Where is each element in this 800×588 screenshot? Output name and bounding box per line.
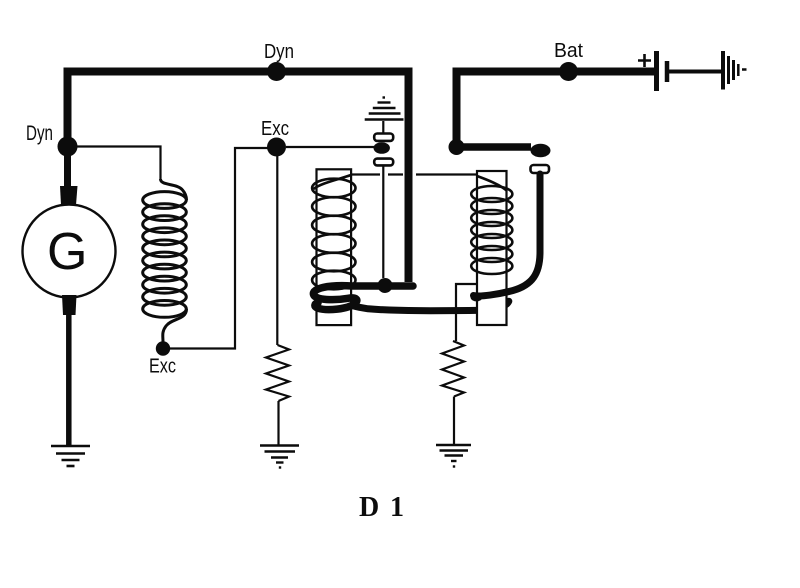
dashed link line between relay tops bbox=[351, 173, 477, 175]
svg-text:Bat: Bat bbox=[554, 40, 583, 62]
wire generator bottom lead bbox=[66, 313, 72, 445]
junction Dyn top bbox=[267, 62, 286, 81]
left relay thick wrap bbox=[313, 286, 413, 310]
wire right resistor to ground bbox=[453, 397, 455, 445]
right relay core bbox=[477, 171, 507, 325]
resistor left bbox=[266, 345, 289, 401]
wire generator top lead bbox=[64, 150, 71, 187]
junction Exc at field coil bbox=[156, 341, 170, 355]
junction Dyn left bbox=[58, 137, 78, 157]
contact upper bbox=[374, 134, 393, 141]
svg-text:Dyn: Dyn bbox=[26, 122, 53, 145]
generator top terminal block bbox=[60, 186, 78, 205]
contact right bbox=[531, 165, 550, 173]
junction contact points bbox=[374, 142, 390, 154]
wire to moving contact arm bbox=[457, 143, 532, 151]
wire left resistor to ground bbox=[277, 401, 279, 445]
left relay core bbox=[317, 169, 352, 325]
generator G bbox=[23, 205, 116, 298]
ground left resistor bbox=[260, 446, 299, 468]
wire Exc node to contact bbox=[286, 146, 374, 148]
svg-text:G: G bbox=[47, 223, 87, 281]
svg-text:Exc: Exc bbox=[261, 118, 289, 140]
junction regulator bbox=[378, 278, 393, 293]
wire dynamo main loop (left vertical, top run, right vertical) bbox=[68, 72, 409, 283]
svg-text:Dyn: Dyn bbox=[264, 41, 294, 63]
junction Bat bbox=[559, 62, 578, 81]
resistor right bbox=[442, 341, 464, 397]
wire Exc node to left resistor bbox=[276, 156, 278, 345]
earth symbol above contact bbox=[365, 98, 404, 134]
wire battery to chassis ground bbox=[669, 70, 721, 74]
chassis ground right bbox=[723, 51, 747, 90]
wire field coil Exc to Exc node bbox=[170, 148, 268, 349]
svg-text:Exc: Exc bbox=[149, 356, 176, 378]
svg-text:D 1: D 1 bbox=[359, 492, 404, 523]
right relay stem and wrap bbox=[474, 174, 541, 296]
left relay winding bbox=[312, 175, 355, 289]
ground right resistor bbox=[436, 445, 471, 467]
contact lower bbox=[374, 159, 393, 166]
ground generator bbox=[51, 446, 90, 466]
wire battery branch corner bbox=[457, 72, 655, 145]
wire Dyn junction to field coil bbox=[70, 147, 161, 180]
battery short plate bbox=[665, 61, 670, 82]
wire right relay to right resistor bbox=[456, 284, 477, 341]
battery plus sign bbox=[638, 54, 651, 67]
wire contact to regulator junction bbox=[382, 166, 384, 279]
generator bottom terminal block bbox=[62, 295, 77, 315]
battery long plate bbox=[654, 51, 659, 91]
field coil (shunt winding) bbox=[143, 179, 187, 342]
right relay winding bbox=[471, 176, 512, 274]
wire bottom thick run bbox=[352, 301, 509, 311]
moving contact tip bbox=[531, 144, 551, 158]
junction battery branch bbox=[449, 139, 465, 155]
junction Exc node bbox=[267, 138, 286, 157]
